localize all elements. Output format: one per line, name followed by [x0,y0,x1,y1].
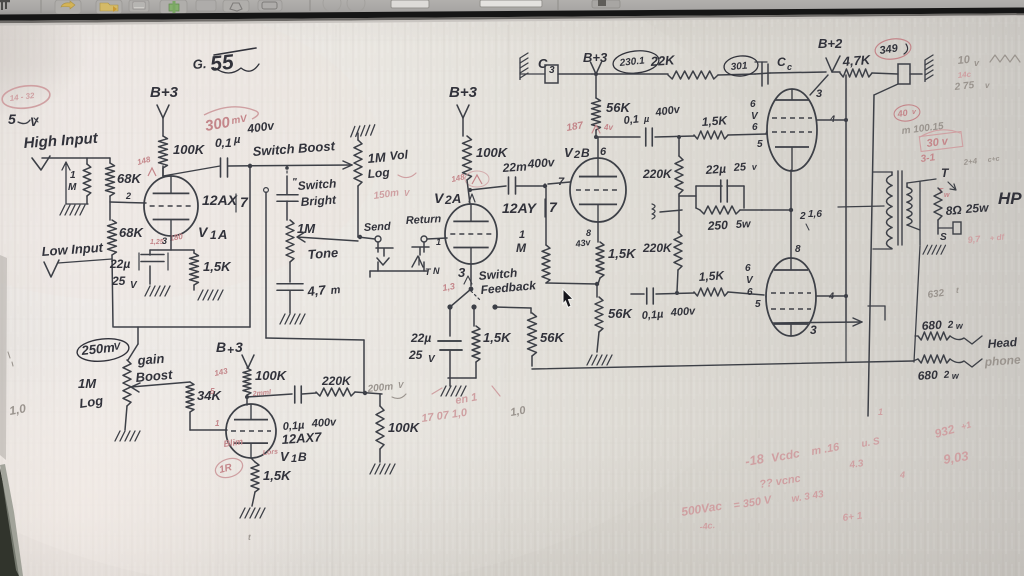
svg-text:56K: 56K [540,330,565,345]
svg-text:1,6: 1,6 [808,209,822,220]
svg-text:220K: 220K [642,241,673,255]
svg-text:400v: 400v [526,155,556,171]
svg-text:14c: 14c [957,70,972,80]
svg-text:1: 1 [436,237,441,247]
svg-text:68K: 68K [117,171,142,186]
svg-text:B+3: B+3 [150,84,179,101]
svg-text:250: 250 [706,218,728,233]
svg-text:1,0: 1,0 [8,401,27,418]
svg-text:B+3: B+3 [449,84,478,101]
svg-text:1: 1 [210,228,217,242]
svg-text:1: 1 [215,419,220,428]
svg-text:Tone: Tone [307,245,339,262]
svg-text:V: V [564,145,574,160]
svg-text:1,5K: 1,5K [263,468,292,483]
svg-text:Bright: Bright [300,192,337,209]
svg-text:56K: 56K [606,100,631,115]
svg-text:3: 3 [235,339,243,355]
svg-text:8Ω: 8Ω [945,203,963,218]
svg-text:22m: 22m [501,159,527,175]
svg-text:phone: phone [983,352,1021,369]
svg-text:S: S [940,232,947,243]
svg-text:1: 1 [291,453,297,465]
svg-text:V: V [398,381,404,390]
svg-text:25w: 25w [964,200,989,216]
svg-text:B: B [216,339,226,355]
svg-text:+: + [227,343,234,357]
svg-text:1,3: 1,3 [442,281,456,293]
svg-text:7: 7 [549,199,558,215]
svg-text:Switch: Switch [297,176,337,193]
svg-text:6: 6 [745,263,751,274]
svg-text:-4c.: -4c. [699,520,716,532]
svg-text:6: 6 [600,146,607,158]
svg-text:N: N [433,266,440,276]
svg-text:25: 25 [732,161,747,174]
svg-text:22K: 22K [649,52,676,69]
svg-text:56K: 56K [608,306,633,321]
svg-text:301: 301 [730,61,748,73]
svg-text:A: A [451,191,461,206]
svg-text:100K: 100K [476,145,509,160]
svg-text:10: 10 [957,54,971,67]
svg-text:12AX: 12AX [202,192,239,208]
svg-text:Log: Log [367,165,391,181]
svg-text:12AY: 12AY [502,200,538,216]
svg-text:3-1: 3-1 [920,152,936,165]
svg-text:+ df: + df [989,232,1006,243]
svg-text:4: 4 [899,470,905,480]
svg-text:Return: Return [406,213,442,227]
svg-text:1: 1 [519,229,525,241]
svg-text:2: 2 [946,320,954,331]
svg-text:B+3: B+3 [583,50,608,65]
svg-text:A: A [217,227,227,242]
svg-text:1M: 1M [297,221,316,236]
svg-text:100K: 100K [255,368,288,383]
svg-text:2: 2 [573,149,580,161]
svg-text:22µ: 22µ [109,257,130,271]
svg-text:µ: µ [233,134,241,146]
svg-text:1,5K: 1,5K [203,259,232,274]
svg-text:2: 2 [799,211,806,222]
svg-text:C: C [538,56,548,71]
svg-text:100K: 100K [388,420,421,435]
svg-text:M: M [68,182,77,193]
svg-text:3: 3 [816,88,822,100]
svg-text:68K: 68K [119,225,144,240]
svg-text:400v: 400v [669,305,696,319]
svg-text:12AX7: 12AX7 [281,429,322,447]
svg-text:3: 3 [810,323,817,337]
svg-text:7: 7 [240,194,249,210]
svg-text:gain: gain [136,351,165,368]
svg-text:680: 680 [917,368,938,383]
svg-text:1,5K: 1,5K [698,268,726,284]
svg-text:Send: Send [364,221,392,234]
svg-text:G.: G. [192,56,207,72]
svg-text:2: 2 [444,193,452,207]
svg-text:400v: 400v [310,416,337,430]
svg-text:V: V [280,449,290,464]
svg-text:1,5K: 1,5K [701,113,729,129]
svg-text:2: 2 [942,370,950,381]
svg-text:22µ: 22µ [704,162,726,177]
svg-text:µ: µ [643,114,649,124]
svg-text:0,1: 0,1 [623,113,639,127]
svg-text:100K: 100K [173,142,206,157]
svg-text:5: 5 [757,139,763,150]
svg-text:1,5K: 1,5K [608,246,637,261]
svg-text:5: 5 [210,387,215,396]
svg-text:0,1: 0,1 [215,136,232,150]
svg-text:0,1µ: 0,1µ [641,308,664,322]
svg-text:B: B [298,450,307,464]
svg-text:c+c: c+c [987,156,1000,164]
svg-text:4,7: 4,7 [306,282,327,299]
svg-text:v: v [985,81,990,90]
svg-text:B: B [581,146,590,160]
svg-text:5: 5 [755,299,761,310]
svg-text:4v: 4v [603,123,613,132]
svg-text:c: c [787,62,792,72]
svg-text:220K: 220K [321,374,352,388]
svg-text:t: t [248,533,251,542]
svg-text:8: 8 [795,244,801,255]
svg-text:25: 25 [408,348,423,362]
svg-text:C: C [777,55,786,69]
svg-text:M: M [516,241,527,255]
svg-text:40: 40 [896,108,908,119]
svg-text:4,7K: 4,7K [841,52,872,69]
svg-text:V: V [404,189,410,198]
svg-text:6: 6 [747,287,753,298]
svg-text:22µ: 22µ [410,331,431,345]
svg-text:680: 680 [921,318,942,333]
svg-text:Vol: Vol [389,147,409,163]
svg-text:3: 3 [549,65,555,76]
svg-text:3: 3 [458,265,466,280]
svg-text:5: 5 [8,111,16,127]
svg-text:w: w [944,192,950,199]
svg-text:HP: HP [998,189,1022,208]
svg-text:t: t [956,286,959,295]
svg-text:25: 25 [111,274,126,288]
svg-text:2 75: 2 75 [953,80,975,93]
svg-text:Head: Head [987,335,1018,351]
svg-text:1: 1 [878,407,883,417]
svg-text:9,7: 9,7 [967,234,981,245]
svg-text:2: 2 [125,191,131,201]
svg-text:B+2: B+2 [818,36,843,51]
svg-text:220K: 220K [642,167,673,181]
svg-text:1M: 1M [367,149,387,166]
svg-text:4: 4 [829,114,835,124]
svg-text:2+4: 2+4 [962,156,978,167]
svg-text:4.3: 4.3 [848,458,865,471]
svg-text:6: 6 [750,99,756,110]
svg-text:6: 6 [752,122,758,133]
svg-text:3: 3 [162,236,167,246]
svg-text:5w: 5w [736,218,753,231]
svg-text:m: m [330,284,341,297]
svg-text:1: 1 [70,170,76,181]
svg-text:1,5K: 1,5K [483,330,512,345]
svg-text:1M: 1M [78,376,97,391]
